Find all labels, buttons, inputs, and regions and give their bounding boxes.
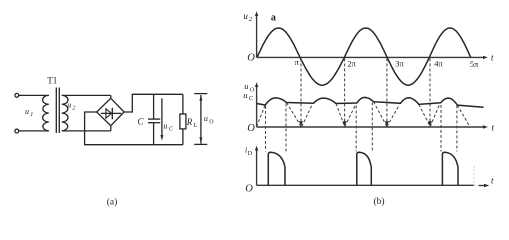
svg-text:O: O: [245, 183, 253, 194]
svg-text:L: L: [193, 122, 197, 129]
svg-text:O: O: [247, 52, 255, 63]
svg-text:u: u: [204, 114, 208, 123]
svg-text:u: u: [67, 101, 71, 110]
svg-text:3π: 3π: [395, 59, 404, 69]
svg-text:u: u: [243, 11, 248, 21]
svg-text:2: 2: [72, 106, 75, 112]
svg-text:T1: T1: [47, 75, 57, 85]
svg-text:R: R: [186, 117, 193, 127]
svg-text:O: O: [250, 87, 255, 94]
svg-text:a: a: [271, 12, 276, 23]
svg-text:u: u: [163, 121, 167, 130]
svg-text:O: O: [247, 123, 255, 134]
svg-text:C: C: [138, 117, 145, 127]
svg-text:u: u: [25, 107, 29, 116]
svg-text:1: 1: [30, 112, 33, 118]
svg-text:O: O: [209, 119, 214, 125]
svg-text:2π: 2π: [347, 58, 356, 68]
svg-text:(b): (b): [373, 196, 384, 207]
svg-text:(a): (a): [107, 196, 118, 207]
svg-text:π: π: [295, 57, 300, 67]
svg-text:D: D: [248, 151, 253, 157]
svg-text:u: u: [243, 90, 247, 100]
svg-text:4π: 4π: [434, 59, 443, 69]
svg-text:5π: 5π: [470, 59, 479, 69]
